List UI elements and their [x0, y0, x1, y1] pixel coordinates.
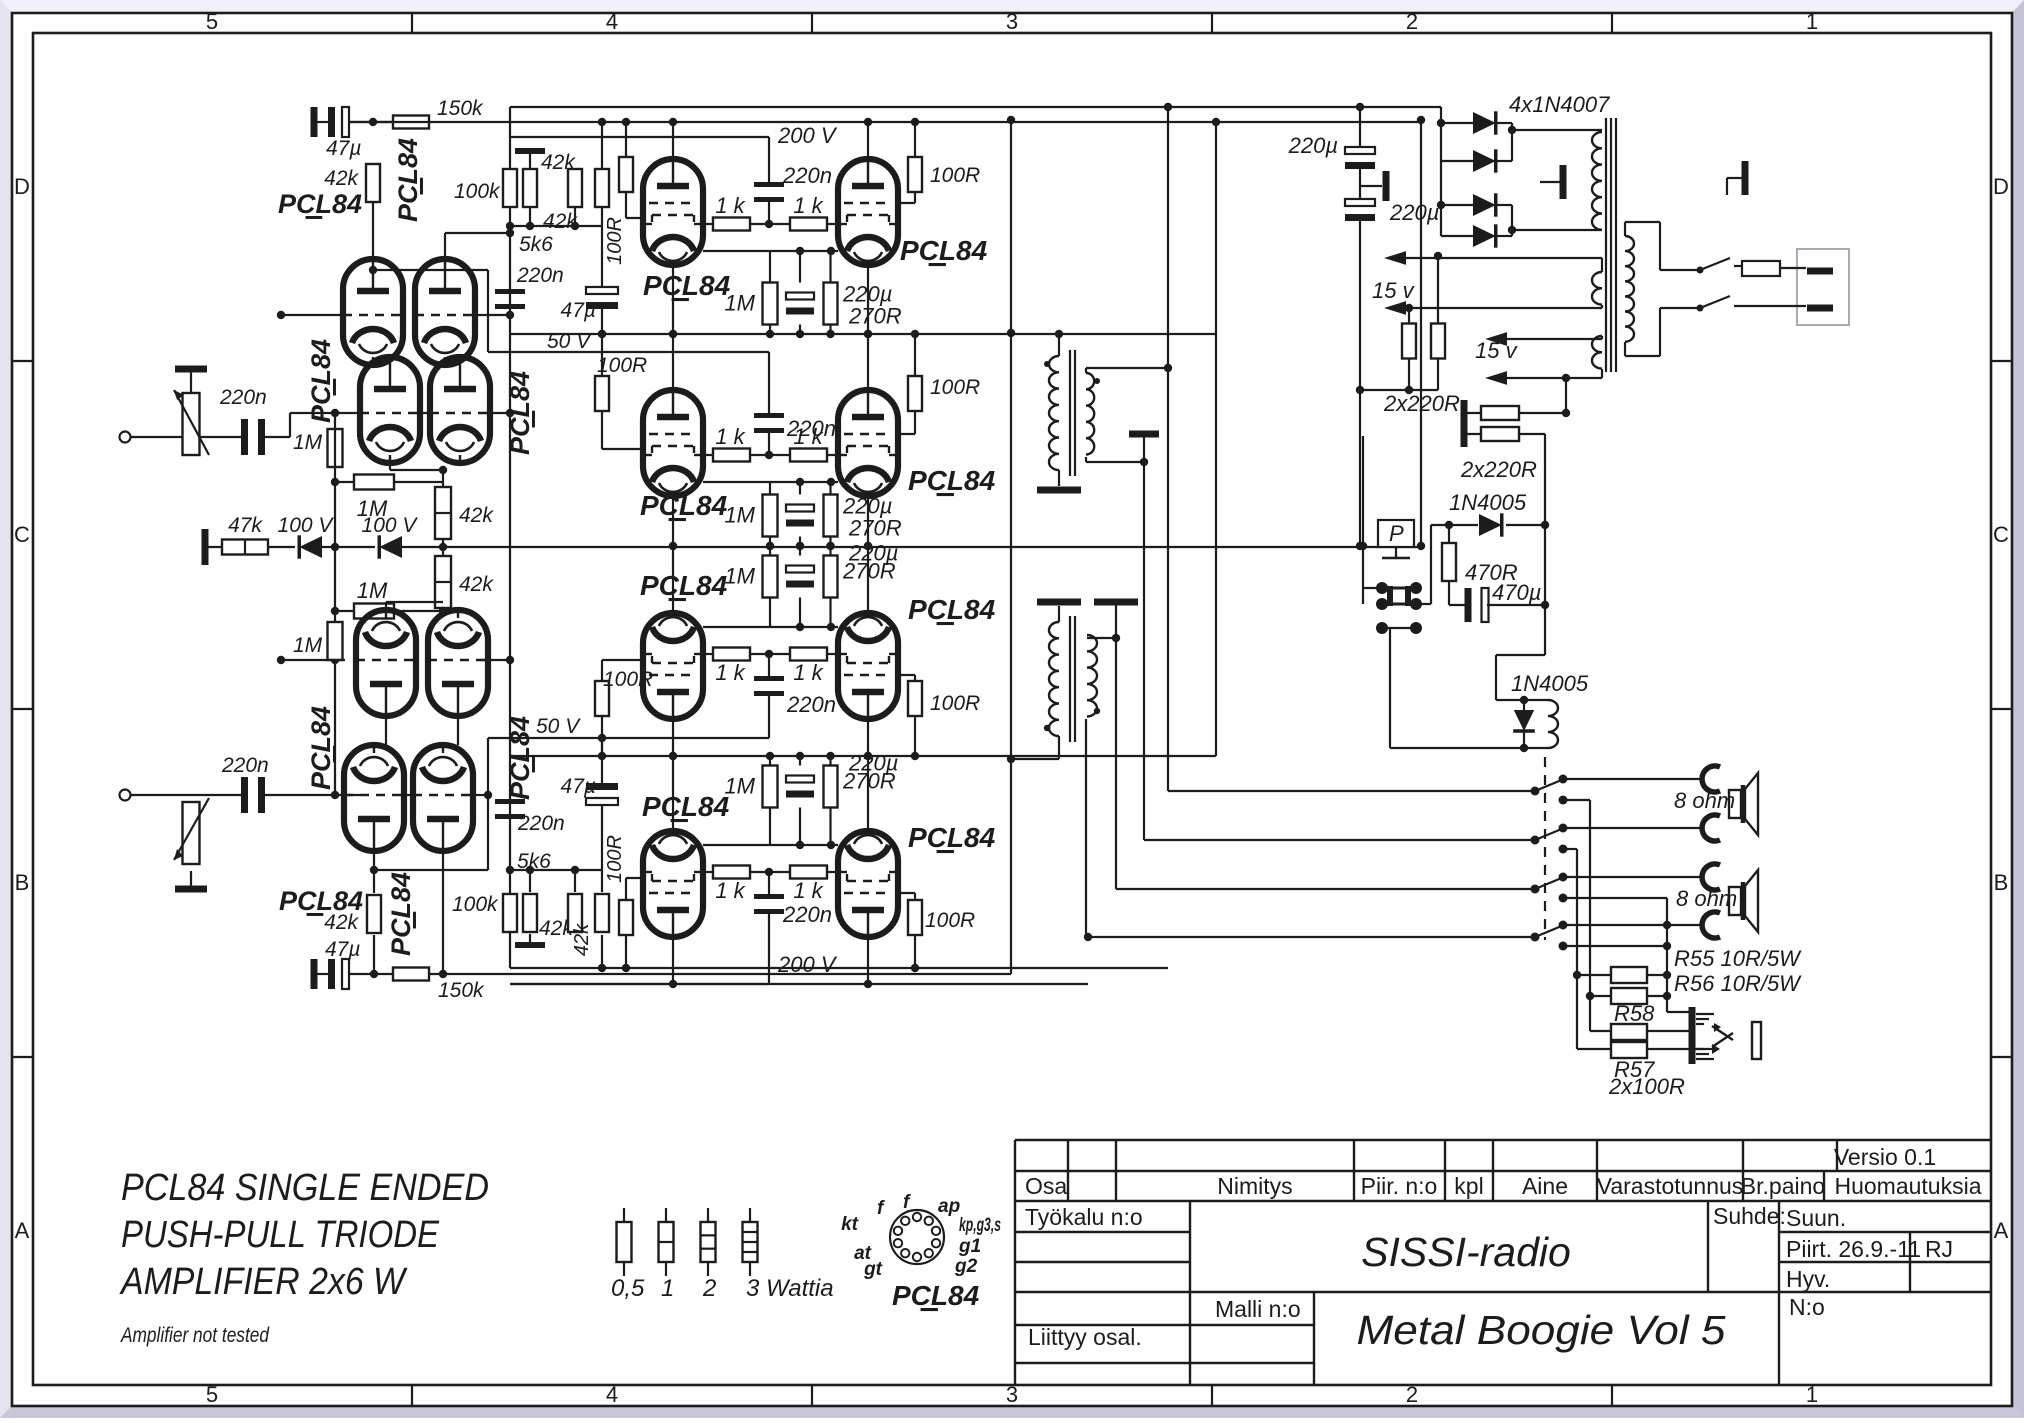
- svg-text:Br.paino: Br.paino: [1741, 1173, 1825, 1199]
- svg-text:PCL84: PCL84: [279, 886, 363, 916]
- svg-text:100R: 100R: [597, 354, 647, 377]
- svg-text:220n: 220n: [219, 386, 267, 409]
- svg-text:Piir. n:o: Piir. n:o: [1361, 1173, 1438, 1199]
- svg-text:PCL84: PCL84: [642, 791, 730, 822]
- svg-text:47µ: 47µ: [325, 938, 360, 961]
- svg-text:PCL84: PCL84: [640, 570, 728, 601]
- svg-text:B: B: [15, 870, 30, 895]
- svg-text:C: C: [14, 522, 30, 547]
- svg-text:4: 4: [606, 9, 618, 34]
- svg-text:A: A: [15, 1218, 30, 1243]
- svg-text:270R: 270R: [848, 304, 902, 329]
- svg-text:5: 5: [206, 9, 218, 34]
- svg-text:Suhde:: Suhde:: [1713, 1203, 1786, 1229]
- svg-text:220n: 220n: [782, 163, 832, 188]
- svg-text:1 k: 1 k: [715, 878, 745, 903]
- svg-text:42k: 42k: [459, 573, 494, 596]
- svg-text:1N4005: 1N4005: [1449, 490, 1527, 515]
- svg-text:5: 5: [206, 1382, 218, 1407]
- svg-text:AMPLIFIER 2x6 W: AMPLIFIER 2x6 W: [119, 1261, 408, 1303]
- svg-text:ap: ap: [938, 1196, 960, 1217]
- svg-text:Huomautuksia: Huomautuksia: [1834, 1173, 1981, 1199]
- svg-text:D: D: [14, 174, 30, 199]
- svg-text:Varastotunnus: Varastotunnus: [1597, 1173, 1744, 1199]
- svg-text:P: P: [1389, 521, 1404, 546]
- svg-text:2x100R: 2x100R: [1608, 1074, 1685, 1099]
- svg-text:220µ: 220µ: [1288, 133, 1338, 158]
- svg-text:PCL84: PCL84: [386, 872, 416, 956]
- svg-text:100R: 100R: [604, 835, 626, 883]
- svg-text:1 k: 1 k: [715, 193, 745, 218]
- svg-text:PCL84 SINGLE ENDED: PCL84 SINGLE ENDED: [121, 1167, 489, 1209]
- svg-text:kpl: kpl: [1454, 1173, 1483, 1199]
- svg-text:270R: 270R: [848, 516, 902, 541]
- svg-text:Suun.: Suun.: [1786, 1205, 1846, 1231]
- svg-text:PCL84: PCL84: [306, 339, 336, 423]
- svg-text:PCL84: PCL84: [393, 138, 423, 222]
- svg-text:47µ: 47µ: [326, 137, 361, 160]
- svg-text:PCL84: PCL84: [908, 465, 996, 496]
- svg-text:N:o: N:o: [1789, 1294, 1825, 1320]
- svg-text:3: 3: [1006, 9, 1018, 34]
- svg-text:Nimitys: Nimitys: [1217, 1173, 1292, 1199]
- svg-text:220n: 220n: [786, 692, 836, 717]
- svg-text:100R: 100R: [925, 909, 975, 932]
- svg-text:220µ: 220µ: [848, 751, 898, 776]
- svg-text:8 ohm: 8 ohm: [1676, 886, 1737, 911]
- svg-text:Piirt. 26.9.-11: Piirt. 26.9.-11: [1786, 1236, 1921, 1262]
- svg-text:47k: 47k: [228, 514, 263, 537]
- svg-text:3 Wattia: 3 Wattia: [746, 1275, 834, 1302]
- svg-text:1 k: 1 k: [715, 424, 745, 449]
- svg-text:220n: 220n: [782, 902, 832, 927]
- svg-text:PCL84: PCL84: [306, 706, 336, 790]
- svg-text:A: A: [1994, 1218, 2009, 1243]
- svg-text:Liittyy osal.: Liittyy osal.: [1028, 1324, 1142, 1350]
- svg-text:g1: g1: [958, 1236, 981, 1257]
- svg-text:100 V: 100 V: [278, 514, 335, 537]
- svg-text:2: 2: [1406, 1382, 1418, 1407]
- svg-text:1M: 1M: [293, 431, 323, 454]
- svg-text:PCL84: PCL84: [505, 371, 535, 455]
- svg-text:220n: 220n: [516, 264, 564, 287]
- svg-text:100R: 100R: [930, 164, 980, 187]
- svg-text:47µ: 47µ: [561, 299, 596, 322]
- svg-text:Hyv.: Hyv.: [1786, 1266, 1830, 1292]
- svg-text:Amplifier not tested: Amplifier not tested: [119, 1324, 270, 1347]
- svg-text:kp,g3,s: kp,g3,s: [959, 1215, 1001, 1236]
- svg-text:1M: 1M: [724, 503, 755, 528]
- svg-text:8 ohm: 8 ohm: [1674, 788, 1735, 813]
- svg-text:PCL84: PCL84: [505, 716, 535, 800]
- svg-text:B: B: [1994, 870, 2009, 895]
- svg-text:200 V: 200 V: [777, 123, 838, 148]
- svg-text:PCL84: PCL84: [640, 490, 728, 521]
- svg-text:100R: 100R: [604, 217, 626, 265]
- svg-text:Malli n:o: Malli n:o: [1215, 1296, 1301, 1322]
- svg-text:42k: 42k: [459, 504, 494, 527]
- svg-text:PUSH-PULL TRIODE: PUSH-PULL TRIODE: [121, 1214, 440, 1256]
- svg-text:100k: 100k: [452, 893, 499, 916]
- svg-text:2x220R: 2x220R: [1460, 457, 1537, 482]
- svg-text:4x1N4007: 4x1N4007: [1509, 92, 1610, 117]
- svg-text:2: 2: [702, 1275, 716, 1302]
- svg-text:RJ: RJ: [1925, 1236, 1953, 1262]
- svg-text:5k6: 5k6: [519, 233, 553, 256]
- svg-text:150k: 150k: [438, 979, 485, 1002]
- svg-text:0,5: 0,5: [611, 1275, 645, 1302]
- svg-text:4: 4: [606, 1382, 618, 1407]
- svg-text:Versio 0.1: Versio 0.1: [1834, 1144, 1936, 1170]
- svg-text:15 v: 15 v: [1372, 278, 1416, 303]
- svg-text:Osa: Osa: [1025, 1173, 1067, 1199]
- svg-text:3: 3: [1006, 1382, 1018, 1407]
- svg-text:220n: 220n: [221, 754, 269, 777]
- svg-text:15 v: 15 v: [1475, 338, 1519, 363]
- svg-text:g2: g2: [954, 1256, 978, 1277]
- svg-text:470µ: 470µ: [1492, 580, 1541, 605]
- svg-text:1 k: 1 k: [793, 193, 823, 218]
- svg-text:100 V: 100 V: [362, 514, 419, 537]
- svg-text:Aine: Aine: [1522, 1173, 1568, 1199]
- svg-text:R55 10R/5W: R55 10R/5W: [1674, 946, 1802, 971]
- svg-text:C: C: [1993, 522, 2009, 547]
- svg-text:PCL84: PCL84: [908, 822, 996, 853]
- svg-text:100R: 100R: [603, 668, 653, 691]
- svg-text:150k: 150k: [437, 97, 484, 120]
- svg-text:PCL84: PCL84: [643, 270, 731, 301]
- svg-text:1M: 1M: [293, 634, 323, 657]
- svg-text:PCL84: PCL84: [278, 189, 362, 219]
- svg-text:R58: R58: [1614, 1001, 1655, 1026]
- svg-text:50 V: 50 V: [536, 715, 581, 738]
- svg-text:42k: 42k: [571, 923, 593, 956]
- svg-text:Metal Boogie Vol 5: Metal Boogie Vol 5: [1357, 1307, 1726, 1353]
- svg-text:2: 2: [1406, 9, 1418, 34]
- svg-text:220n: 220n: [786, 416, 836, 441]
- svg-text:SISSI-radio: SISSI-radio: [1361, 1229, 1571, 1275]
- svg-text:PCL84: PCL84: [900, 235, 988, 266]
- svg-text:1 k: 1 k: [793, 660, 823, 685]
- svg-text:200 V: 200 V: [777, 952, 838, 977]
- svg-text:100k: 100k: [454, 180, 501, 203]
- svg-text:42k: 42k: [324, 167, 359, 190]
- svg-text:1: 1: [661, 1275, 674, 1302]
- svg-text:1M: 1M: [357, 578, 388, 603]
- svg-text:PCL84: PCL84: [908, 594, 996, 625]
- svg-text:PCL84: PCL84: [892, 1280, 980, 1311]
- svg-text:100R: 100R: [930, 376, 980, 399]
- svg-text:Työkalu n:o: Työkalu n:o: [1025, 1204, 1143, 1230]
- svg-text:100R: 100R: [930, 692, 980, 715]
- svg-text:1 k: 1 k: [793, 878, 823, 903]
- svg-text:1M: 1M: [724, 564, 755, 589]
- svg-text:D: D: [1993, 174, 2009, 199]
- svg-text:220n: 220n: [517, 812, 565, 835]
- svg-text:1: 1: [1806, 9, 1818, 34]
- svg-text:1 k: 1 k: [715, 660, 745, 685]
- svg-text:220µ: 220µ: [848, 541, 898, 566]
- svg-text:gt: gt: [863, 1259, 883, 1280]
- svg-text:R56 10R/5W: R56 10R/5W: [1674, 971, 1802, 996]
- svg-text:47µ: 47µ: [561, 775, 596, 798]
- svg-text:1N4005: 1N4005: [1511, 671, 1589, 696]
- svg-text:1: 1: [1806, 1382, 1818, 1407]
- svg-text:220µ: 220µ: [1389, 200, 1439, 225]
- svg-text:kt: kt: [841, 1214, 859, 1235]
